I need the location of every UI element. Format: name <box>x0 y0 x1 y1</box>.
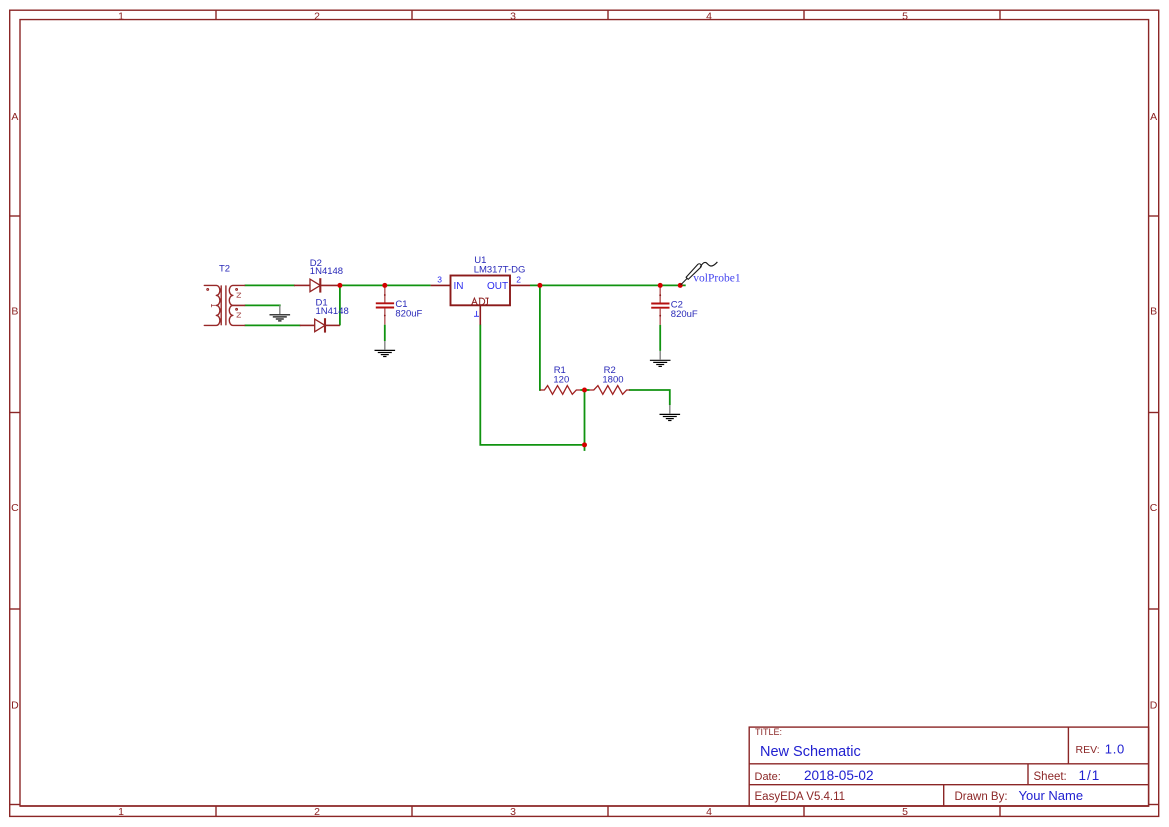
title block <box>749 727 1148 806</box>
svg-text:4: 4 <box>706 806 712 818</box>
transformer pin number 1 <box>211 304 215 307</box>
junction node: R1/R2 <box>582 388 587 393</box>
svg-text:A: A <box>11 111 18 123</box>
svg-text:2: 2 <box>314 806 320 818</box>
diode D1 <box>300 318 340 332</box>
svg-text:3: 3 <box>437 275 442 285</box>
junction node: D2 cathode / D1 branch <box>337 283 342 288</box>
wire: transformer center tap to ground <box>245 305 280 306</box>
svg-text:120: 120 <box>553 374 569 385</box>
svg-text:New Schematic: New Schematic <box>760 744 861 760</box>
junction node: probe attachment <box>678 283 683 288</box>
diode D2 <box>294 278 340 292</box>
U1 pin name ADJ <box>471 298 489 305</box>
svg-text:1800: 1800 <box>602 374 623 385</box>
svg-text:Sheet:: Sheet: <box>1034 771 1067 783</box>
svg-text:B: B <box>11 306 18 318</box>
capacitor C2 <box>651 285 669 325</box>
junction node: C1 top <box>382 283 387 288</box>
svg-text:1: 1 <box>118 10 124 22</box>
ground at transformer center tap <box>270 305 291 321</box>
svg-text:1.0: 1.0 <box>1105 741 1125 756</box>
wire: C2 to ground <box>659 325 661 351</box>
svg-text:2: 2 <box>314 10 320 22</box>
svg-text:T2: T2 <box>219 263 230 274</box>
resistor R1 <box>540 386 580 395</box>
svg-text:REV:: REV: <box>1076 744 1100 756</box>
svg-text:5: 5 <box>902 10 908 22</box>
svg-text:EasyEDA V5.4.11: EasyEDA V5.4.11 <box>755 791 846 803</box>
svg-text:C: C <box>11 502 19 514</box>
regulator U1 LM317T-DG <box>431 276 530 325</box>
svg-text:D: D <box>1150 699 1158 711</box>
svg-text:A: A <box>1150 111 1157 123</box>
svg-text:3: 3 <box>510 10 516 22</box>
svg-text:Drawn By:: Drawn By: <box>955 791 1008 803</box>
svg-text:820uF: 820uF <box>671 309 698 320</box>
svg-text:D: D <box>11 699 19 711</box>
transformer T2 <box>204 285 244 325</box>
resistor R2 <box>590 386 630 395</box>
svg-text:1/1: 1/1 <box>1079 768 1101 783</box>
voltage probe volProbe1 <box>681 262 718 285</box>
junction node: ADJ net <box>582 442 587 447</box>
svg-text:4: 4 <box>706 10 712 22</box>
svg-text:5: 5 <box>902 806 908 818</box>
svg-text:IN: IN <box>454 281 464 292</box>
wire: transformer secondary top to D2 anode <box>245 284 296 286</box>
svg-text:2: 2 <box>516 274 521 284</box>
svg-text:1N4148: 1N4148 <box>316 306 349 317</box>
wire: R1 to R2 junction <box>580 389 589 391</box>
ground below C1 <box>375 341 396 357</box>
wire: R2 right to ground <box>629 390 670 405</box>
wire: D2 cathode junction down to D1 cathode <box>339 285 341 325</box>
svg-text:Date:: Date: <box>755 771 781 783</box>
svg-text:820uF: 820uF <box>395 309 422 320</box>
junction node: OUT rail / R1 branch <box>537 283 542 288</box>
svg-text:TITLE:: TITLE: <box>755 727 782 737</box>
ground below C2 <box>650 351 671 367</box>
transformer winding label N top <box>237 293 241 297</box>
transformer winding label N bottom <box>237 313 241 317</box>
svg-text:2018-05-02: 2018-05-02 <box>804 768 874 783</box>
svg-text:3: 3 <box>510 806 516 818</box>
wire: C1 to ground <box>384 325 386 341</box>
U1 pin number 1 <box>474 311 479 316</box>
wire: main rail D2 junction to U1 IN pin <box>340 284 431 286</box>
wire: ADJ pin down and right to R1/R2 junction <box>480 325 584 445</box>
capacitor C1 <box>376 285 394 324</box>
svg-text:volProbe1: volProbe1 <box>693 273 741 285</box>
svg-text:C: C <box>1150 502 1158 514</box>
svg-text:B: B <box>1150 306 1157 318</box>
svg-text:1N4148: 1N4148 <box>310 266 343 277</box>
wire: OUT junction down to R1 <box>540 285 541 390</box>
junction node: C2 top <box>658 283 663 288</box>
wire: transformer secondary bottom to D1 anode <box>245 324 301 326</box>
ground right of R2 <box>660 405 681 421</box>
svg-text:1: 1 <box>118 806 124 818</box>
wire: R1/R2 junction down to ADJ net <box>584 390 586 451</box>
svg-text:OUT: OUT <box>487 281 508 292</box>
svg-text:Your Name: Your Name <box>1019 788 1084 803</box>
wire: U1 OUT pin to wire end past probe <box>530 284 686 286</box>
